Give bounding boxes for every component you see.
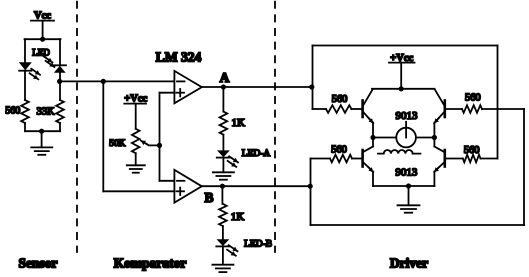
svg-text:560: 560 bbox=[5, 105, 20, 116]
transistor Q2 9013 (top-right) bbox=[434, 90, 445, 138]
power Vcc (sensor supply) bbox=[31, 10, 54, 39]
node (motor left rail) bbox=[370, 135, 375, 140]
wire (LED-B to ground) bbox=[222, 246, 224, 264]
label LM 324 bbox=[156, 50, 202, 65]
label 9013 (upper pair) bbox=[396, 110, 419, 122]
wire (driver outer top rail) bbox=[313, 45, 498, 47]
photodiode D2 (infrared detector) bbox=[44, 56, 66, 72]
transistor Q4 9013 (bottom-right) bbox=[434, 138, 445, 187]
potentiometer 50K (threshold adjust) bbox=[109, 129, 159, 153]
svg-text:9013: 9013 bbox=[395, 166, 418, 178]
ground (potentiometer) bbox=[127, 165, 145, 172]
wire (left branch to LED anode) bbox=[24, 39, 26, 62]
separator dashed line (Komparator | Driver) bbox=[274, 2, 276, 252]
node (input branch junction) bbox=[101, 79, 106, 84]
wire (sensor bottom rail) bbox=[25, 130, 60, 132]
wire (photodiode to divider node) bbox=[59, 73, 61, 100]
svg-text:LED-A: LED-A bbox=[242, 149, 271, 159]
svg-text:560: 560 bbox=[332, 94, 348, 105]
resistor 560 (sensor LED current limit) bbox=[5, 100, 29, 123]
wire (driver right vertical) bbox=[497, 46, 499, 159]
svg-text:LM 324: LM 324 bbox=[156, 50, 202, 65]
svg-text:A: A bbox=[220, 70, 230, 85]
svg-text:Sensor: Sensor bbox=[18, 255, 57, 270]
svg-text:560: 560 bbox=[465, 93, 481, 104]
svg-text:33K: 33K bbox=[37, 107, 56, 118]
node (photodiode / 33K divider) bbox=[57, 79, 62, 84]
wire (jog to outer right rail) bbox=[498, 108, 525, 110]
wire (driver outer bottom rail) bbox=[311, 224, 525, 226]
LED-A (indicator) bbox=[217, 150, 238, 167]
ground (LED-A) bbox=[213, 172, 234, 179]
wire (sensor node to op-amp A inverting input) bbox=[60, 80, 175, 82]
ground (driver) bbox=[398, 205, 420, 212]
node (sensor ground junction) bbox=[39, 129, 44, 134]
wire (op-amp B inverting stub) bbox=[160, 180, 175, 182]
transistor Q3 9013 (bottom-left) bbox=[363, 138, 374, 187]
svg-text:Driver: Driver bbox=[390, 255, 428, 270]
op-amp U1A (comparator A) bbox=[174, 71, 201, 103]
resistor 1K (LED-B current limit) bbox=[219, 204, 244, 226]
svg-text:560: 560 bbox=[331, 145, 347, 156]
wire (node A down to 1K) bbox=[222, 87, 224, 112]
label LED bbox=[32, 48, 50, 58]
svg-text:50K: 50K bbox=[109, 139, 126, 149]
svg-text:LED: LED bbox=[32, 48, 50, 58]
separator dashed line (Sensor | Komparator) bbox=[76, 2, 78, 252]
node (A output to driver junction) bbox=[309, 84, 314, 89]
power +Vcc (potentiometer supply) bbox=[124, 93, 147, 128]
wire (driver inner bottom rail) bbox=[373, 185, 434, 187]
wire (outer right rail down) bbox=[523, 109, 525, 225]
label LED-A bbox=[242, 149, 271, 159]
transistor Q1 9013 (top-left) bbox=[363, 90, 374, 138]
svg-text:LED-B: LED-B bbox=[244, 240, 272, 250]
motor M1 (DC motor) bbox=[396, 122, 416, 148]
svg-text:B: B bbox=[204, 190, 213, 205]
wire (node B down to 1K) bbox=[221, 186, 223, 204]
section label Driver bbox=[390, 255, 428, 270]
LED D1 (infrared emitter) bbox=[19, 62, 40, 79]
wire (to driver ground) bbox=[408, 186, 410, 205]
wire (B junction vertical) bbox=[310, 159, 312, 226]
wire (LED-A to ground) bbox=[222, 158, 224, 173]
wire (op-amp A non-inverting stub) bbox=[160, 92, 175, 94]
wire (right branch bottom) bbox=[59, 123, 61, 131]
wire (motor to right rail) bbox=[416, 137, 435, 139]
node (motor right rail) bbox=[432, 135, 437, 140]
ground (LED-B) bbox=[212, 265, 233, 272]
ground (sensor) bbox=[31, 147, 52, 154]
wire (A junction vertical) bbox=[312, 46, 314, 110]
wire (potentiometer to ground) bbox=[135, 153, 137, 165]
wire (reference rail from potentiometer wiper) bbox=[159, 93, 161, 181]
svg-text:560: 560 bbox=[464, 145, 480, 156]
node A (comparator A output) bbox=[220, 70, 230, 90]
svg-text:9013: 9013 bbox=[396, 110, 419, 122]
svg-text:1K: 1K bbox=[231, 211, 245, 223]
resistor 560 (Q1 base, top-left) bbox=[313, 94, 362, 113]
node (B output to driver junction) bbox=[308, 184, 313, 189]
resistor 33K (photodiode load) bbox=[37, 100, 64, 123]
wire (op-amp A output row) bbox=[202, 86, 313, 88]
label 9013 (lower pair) bbox=[395, 166, 418, 178]
power +Vcc (driver supply) bbox=[389, 53, 415, 89]
resistor 560 (Q3 base, bottom-left) bbox=[311, 145, 362, 163]
wire (LED cathode to resistor) bbox=[24, 71, 26, 100]
node (emitter junction to ground) bbox=[406, 183, 411, 188]
op-amp U1B (comparator B) bbox=[174, 170, 201, 203]
wire (driver inner top rail) bbox=[372, 88, 435, 90]
wire (sensor top rail) bbox=[25, 38, 61, 40]
node (wiper junction) bbox=[157, 143, 162, 148]
wire (op-amp B output row) bbox=[202, 185, 311, 187]
wire (to sensor ground) bbox=[41, 131, 43, 147]
node (+Vcc tap on inner rail) bbox=[399, 86, 404, 91]
node B (comparator B output) bbox=[204, 184, 225, 205]
wire (1K to LED-B) bbox=[222, 226, 224, 239]
wire (left branch bottom) bbox=[24, 123, 26, 131]
wire (left rail to motor) bbox=[373, 137, 396, 139]
wire (branch down to op-amp B non-inverting input) bbox=[103, 81, 174, 191]
label LED-B bbox=[244, 240, 272, 250]
node (Vcc tap junction) bbox=[40, 37, 45, 42]
wire (right branch to photodiode) bbox=[59, 39, 61, 65]
resistor 560 (Q2 base, top-right) bbox=[446, 93, 498, 113]
section label Sensor bbox=[18, 255, 57, 270]
LED-B (indicator) bbox=[216, 239, 237, 256]
svg-text:Komparator: Komparator bbox=[114, 255, 187, 270]
wire (1K to LED-A) bbox=[222, 135, 224, 151]
resistor 560 (Q4 base, bottom-right) bbox=[446, 145, 498, 162]
inductor (motor winding) bbox=[378, 150, 420, 154]
resistor 1K (LED-A current limit) bbox=[220, 112, 245, 135]
svg-text:1K: 1K bbox=[232, 117, 246, 129]
section label Komparator bbox=[114, 255, 187, 270]
